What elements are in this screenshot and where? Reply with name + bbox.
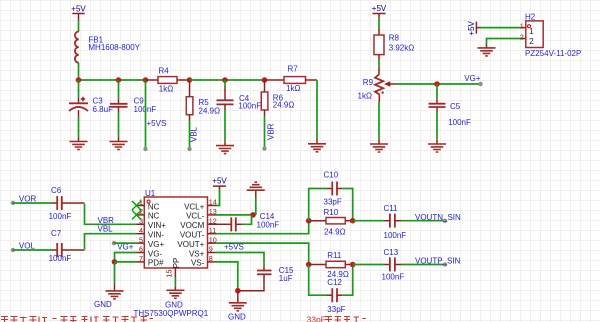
svg-text:C13: C13 (384, 248, 399, 257)
svg-text:VOR: VOR (19, 194, 37, 203)
svg-text:C6: C6 (51, 186, 62, 195)
ground (inverted, VCL-) (247, 182, 265, 197)
svg-text:PZ254V-11-02P: PZ254V-11-02P (525, 49, 581, 58)
capacitor C5 100nF (429, 99, 471, 127)
wire (436, 113, 438, 140)
svg-text:+5V: +5V (372, 4, 387, 13)
svg-text:VG+: VG+ (464, 74, 481, 83)
junction (262, 77, 268, 83)
wire (78, 117, 80, 137)
ground (pin15) (165, 286, 184, 309)
junction (250, 212, 256, 218)
junction (235, 288, 241, 294)
svg-text:1kΩ: 1kΩ (286, 84, 300, 93)
svg-text:+5V: +5V (71, 5, 86, 14)
svg-text:C5: C5 (450, 102, 461, 111)
ground (VS-) (228, 291, 247, 322)
pin 4 VIN- (137, 226, 165, 240)
svg-text:VOUTN_SIN: VOUTN_SIN (415, 213, 461, 222)
wire (114, 242, 137, 244)
junction (143, 77, 149, 83)
svg-text:VCL+: VCL+ (184, 202, 205, 211)
resistor R11 24.9 (309, 251, 353, 279)
svg-text:R4: R4 (159, 66, 170, 75)
node VG+ (input) (112, 241, 134, 252)
capacitor C3 (polarized 6.8uF) (69, 97, 113, 117)
svg-text:PP: PP (172, 258, 181, 269)
node VG+ (464, 74, 482, 86)
svg-text:3.92kΩ: 3.92kΩ (389, 43, 415, 52)
wire (+5VS stub) (145, 80, 147, 149)
ground (C5) (428, 140, 446, 152)
wire (480, 27, 521, 29)
svg-text:VS+: VS+ (189, 249, 205, 258)
wire (401, 220, 445, 222)
svg-text:VG+: VG+ (148, 240, 165, 249)
svg-text:VOUT-: VOUT- (180, 231, 205, 240)
pin 5 VG+ (137, 235, 165, 249)
svg-text:100nF: 100nF (384, 231, 407, 240)
svg-text:C12: C12 (327, 278, 342, 287)
svg-text:11: 11 (209, 226, 216, 235)
node VOR (11, 194, 37, 205)
wire (13, 202, 52, 204)
svg-text:R10: R10 (324, 208, 339, 217)
potentiometer R9 1k (358, 74, 397, 102)
svg-text:100nF: 100nF (49, 254, 72, 263)
svg-text:100nF: 100nF (49, 212, 72, 221)
pin 14 VCL+ (184, 198, 217, 212)
node VBR (262, 146, 266, 150)
wire (242, 215, 252, 224)
svg-text:VBR: VBR (98, 216, 115, 225)
wire (353, 264, 385, 266)
wire (224, 110, 226, 141)
wire (401, 264, 445, 266)
power +5V (R8 feed) (372, 4, 387, 18)
wire (378, 102, 380, 140)
wire (353, 220, 385, 222)
wire (378, 18, 380, 29)
pin 1 NC (137, 198, 160, 212)
svg-text:33pF: 33pF (327, 305, 345, 314)
junction (112, 259, 118, 265)
svg-text:5: 5 (139, 235, 143, 244)
svg-text:1: 1 (529, 27, 534, 36)
svg-text:VIN-: VIN- (148, 231, 164, 240)
junction (306, 262, 312, 268)
wire (VS- down) (216, 262, 238, 291)
wire (PD# to gnd) (115, 261, 137, 263)
node VOUTN_SIN (415, 213, 461, 223)
svg-text:MH1608-800Y: MH1608-800Y (88, 43, 140, 52)
pin 15 PP (pad) (164, 258, 181, 278)
capacitor C7 100nF (49, 229, 85, 263)
svg-text:100nF: 100nF (382, 273, 405, 282)
ground (C9) (110, 137, 128, 150)
svg-text:15: 15 (164, 270, 173, 278)
pin 3 VIN+ (137, 217, 167, 231)
svg-text:2: 2 (520, 33, 524, 42)
svg-text:1: 1 (520, 22, 524, 31)
svg-text:24.9Ω: 24.9Ω (273, 100, 295, 109)
node VOL (11, 241, 36, 252)
annotation text (red, clipped) (1, 317, 153, 322)
wire (+5V rail) (79, 79, 146, 81)
wire (436, 84, 438, 99)
svg-text:PD#: PD# (148, 259, 164, 268)
svg-text:9: 9 (209, 245, 213, 254)
wire (VBR net) (85, 204, 137, 225)
wire (13, 249, 52, 251)
power +5V (H2, rotated) (467, 20, 480, 35)
svg-text:NC: NC (148, 202, 160, 211)
ground (C4) (216, 141, 234, 153)
wire (216, 190, 220, 206)
wire (VOUT- to R10) (216, 221, 309, 234)
capacitor C14 100nF (216, 212, 280, 231)
capacitor C11 100nF (384, 204, 407, 240)
wire (118, 80, 120, 99)
wire (264, 116, 266, 149)
svg-text:+5V: +5V (212, 177, 227, 186)
pin 2 NC (137, 207, 160, 221)
svg-text:R8: R8 (389, 34, 400, 43)
svg-text:+5VS: +5VS (224, 243, 244, 252)
junction (350, 262, 356, 268)
capacitor C6 100nF (49, 186, 85, 221)
svg-text:VG-: VG- (148, 249, 163, 258)
wire (rail) (190, 79, 265, 81)
wire (VCL- net) (216, 214, 256, 216)
pin 13 VCL- (186, 207, 217, 221)
svg-text:6: 6 (139, 245, 143, 254)
svg-text:GND: GND (228, 313, 246, 322)
wire (114, 262, 116, 284)
junction (306, 218, 312, 224)
svg-text:8: 8 (209, 254, 213, 263)
svg-text:R7: R7 (288, 64, 299, 73)
junction (76, 77, 82, 83)
svg-text:GND: GND (165, 300, 183, 309)
svg-text:1kΩ: 1kΩ (358, 92, 372, 101)
svg-text:VBL: VBL (98, 225, 114, 234)
wire (78, 63, 80, 80)
node +5VS (143, 119, 166, 151)
svg-text:VOL: VOL (19, 241, 36, 250)
svg-text:100nF: 100nF (257, 220, 280, 229)
resistor R5 24.9 (186, 80, 220, 120)
svg-text:+5V: +5V (467, 20, 476, 35)
wire (78, 80, 80, 98)
junction (222, 77, 228, 83)
ground (C3) (70, 137, 88, 150)
wire (487, 39, 521, 45)
capacitor C4 100nF (217, 80, 262, 111)
resistor R8 3.92k (374, 29, 414, 75)
no-connect X pin2 (132, 210, 141, 219)
resistor R4 1k (146, 66, 190, 93)
wire (255, 198, 257, 215)
wire (VG- to gnd) (115, 253, 137, 262)
wire (118, 112, 120, 137)
wire (VOUT+ to R11) (216, 243, 309, 264)
svg-text:33pF: 33pF (324, 198, 342, 207)
ground (R7) (308, 140, 326, 152)
junction (187, 77, 193, 83)
pin 11 VOUT- (180, 226, 216, 240)
connector H2 PZ254V-11-02P (520, 13, 582, 58)
svg-text:24.9Ω: 24.9Ω (199, 106, 221, 115)
pin 12 VOCM (180, 217, 217, 231)
junction (350, 218, 356, 224)
svg-text:VOCM: VOCM (180, 221, 204, 230)
svg-text:GND: GND (94, 300, 112, 309)
svg-text:VCL-: VCL- (186, 212, 205, 221)
pin 9 VS+ (189, 245, 216, 259)
pin 7 PD# (137, 254, 165, 268)
junction (116, 77, 122, 83)
svg-text:VG+: VG+ (117, 243, 134, 252)
svg-text:VS-: VS- (191, 259, 205, 268)
ground (VG-/PD#) (94, 284, 124, 310)
svg-text:VIN+: VIN+ (148, 221, 166, 230)
wire (189, 120, 191, 149)
pin 10 VOUT+ (177, 235, 216, 249)
resistor R7 1k (265, 64, 318, 93)
capacitor C12 33pF (branch) (309, 265, 353, 315)
ferrite bead FB1 (75, 32, 141, 63)
svg-text:NC: NC (148, 212, 160, 221)
svg-text:1uF: 1uF (279, 274, 293, 283)
capacitor C15 1uF (257, 266, 294, 283)
no-connect X pin1 (132, 201, 141, 210)
wire (VBL net) (85, 234, 137, 250)
wire (wiper to VG+) (396, 83, 481, 85)
annotation text 33pF (red, clipped) (307, 315, 367, 322)
svg-text:1kΩ: 1kΩ (159, 84, 173, 93)
ground (R9) (370, 140, 388, 152)
svg-text:+5VS: +5VS (147, 119, 167, 128)
power +5V (ferrite feed) (71, 5, 86, 21)
svg-text:33pF: 33pF (307, 315, 326, 322)
svg-text:4: 4 (139, 226, 143, 235)
svg-text:100nF: 100nF (448, 118, 471, 127)
svg-text:7: 7 (139, 254, 143, 263)
svg-text:2: 2 (529, 37, 534, 46)
svg-text:C11: C11 (384, 204, 399, 213)
wire (78, 20, 80, 32)
capacitor C13 100nF (382, 248, 405, 282)
ground (H2) (478, 44, 496, 56)
capacitor C10 33pF (branch) (309, 170, 353, 220)
svg-text:VBL: VBL (190, 126, 199, 142)
capacitor C9 100nF (110, 97, 156, 115)
svg-text:R11: R11 (327, 251, 342, 260)
svg-text:R9: R9 (363, 78, 374, 87)
svg-text:24.9Ω: 24.9Ω (324, 228, 346, 237)
svg-text:100nF: 100nF (238, 102, 261, 111)
power +5V (VCL+) (212, 177, 227, 190)
svg-text:VOUT+: VOUT+ (177, 240, 204, 249)
node VBL (187, 147, 191, 151)
pin 8 VS- (191, 254, 216, 268)
svg-text:C10: C10 (324, 170, 339, 179)
wire (238, 279, 264, 291)
wire (174, 277, 176, 286)
resistor R10 24.9 (309, 208, 353, 237)
svg-text:VOUTP_SIN: VOUTP_SIN (415, 256, 461, 265)
resistor R6 24.9 (261, 80, 294, 116)
wire (316, 80, 318, 140)
svg-text:3: 3 (139, 217, 143, 226)
node VOUTP_SIN (415, 256, 461, 266)
junction (434, 81, 440, 87)
svg-text:VBR: VBR (267, 123, 276, 140)
wire (VS+ / +5VS) (216, 253, 265, 267)
svg-text:C7: C7 (51, 229, 62, 238)
svg-text:6.8uF: 6.8uF (93, 105, 114, 114)
pin 6 VG- (137, 245, 163, 259)
op-amp U1 THS7530QPWPRQ1 (144, 189, 207, 268)
